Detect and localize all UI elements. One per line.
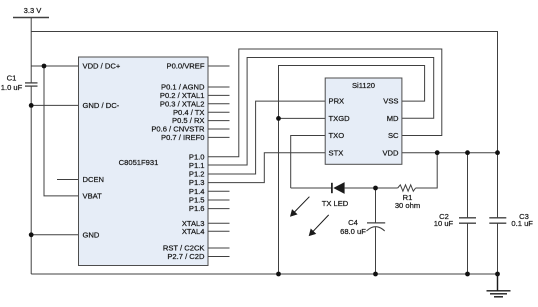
svg-text:VSS: VSS	[383, 97, 398, 106]
junction at GND/DC-	[29, 103, 34, 108]
svg-text:0.1 uF: 0.1 uF	[511, 219, 533, 228]
svg-text:TX LED: TX LED	[322, 199, 349, 208]
pin stub P1.5	[208, 199, 230, 201]
svg-text:TXO: TXO	[329, 131, 345, 140]
capacitor C2 leads	[467, 153, 469, 218]
svg-text:TXGD: TXGD	[329, 114, 351, 123]
power symbol 3.3V bar	[13, 17, 49, 19]
junction rail/ground symbol	[495, 272, 500, 277]
svg-text:P0.0/VREF: P0.0/VREF	[167, 62, 205, 71]
svg-text:VDD / DC+: VDD / DC+	[83, 62, 121, 71]
ground symbol	[487, 274, 511, 297]
svg-text:PRX: PRX	[329, 97, 345, 106]
capacitor C1	[25, 82, 38, 84]
wire: P1.2 to PRX	[208, 101, 325, 174]
wire: bottom ground rail	[31, 273, 497, 275]
capacitor C4	[367, 222, 385, 224]
wire: GND pin	[31, 234, 78, 236]
capacitor C1 top lead	[30, 66, 32, 83]
wire: VDD of Si1120	[402, 152, 498, 154]
wire: VDD/DC+	[31, 65, 78, 67]
svg-text:MD: MD	[387, 114, 399, 123]
resistor R1	[398, 185, 416, 191]
svg-text:C1: C1	[7, 74, 17, 83]
svg-text:1.0 uF: 1.0 uF	[1, 83, 23, 92]
wire: TXGD	[279, 117, 326, 119]
svg-text:30 ohm: 30 ohm	[395, 201, 420, 210]
capacitor C2	[459, 217, 476, 219]
svg-text:P1.4: P1.4	[189, 187, 205, 196]
capacitor C3 leads	[497, 153, 499, 218]
junction at VDD/DC+ branch	[42, 64, 47, 69]
pin stub P0.4	[208, 111, 230, 113]
svg-text:SC: SC	[388, 131, 399, 140]
junction TXGD/ground riser	[276, 116, 281, 121]
wire: 3.3V feed down	[30, 18, 32, 67]
wire: P1.0 to SC	[208, 49, 442, 157]
pin stub XTAL3	[208, 222, 230, 224]
pin stub P0.5	[208, 120, 230, 122]
LED emission arrow 1	[291, 197, 310, 216]
wire: P1.3 to STX	[208, 153, 325, 183]
svg-text:DCEN: DCEN	[83, 175, 105, 184]
svg-text:Si1120: Si1120	[352, 81, 375, 90]
LED emission arrow 2	[309, 215, 328, 236]
wire: GND/DC-	[31, 104, 78, 106]
wire: LED anode to R1	[345, 187, 398, 189]
pin stub P0.2	[208, 94, 230, 96]
pin stub P0.1	[208, 86, 230, 88]
junction VDD rail R1	[435, 150, 440, 155]
svg-text:C8051F931: C8051F931	[119, 158, 159, 167]
wire: LED branch left	[291, 187, 332, 189]
wire: R1 to VDD	[416, 153, 438, 188]
pin stub P2.7/C2D	[208, 256, 230, 258]
pin stub P0.0/VREF	[208, 65, 230, 67]
junction rail/C4	[373, 272, 378, 277]
pin stub P0.7	[208, 136, 230, 138]
junction at GND pin	[29, 232, 34, 237]
IC U2 Si1120	[325, 78, 402, 164]
svg-text:XTAL4: XTAL4	[182, 227, 205, 236]
capacitor C4 leads	[375, 188, 377, 223]
junction LED/R1/C4	[373, 186, 378, 191]
svg-text:P1.1: P1.1	[189, 161, 205, 170]
wire: C1 bottom lead / left ground drop	[30, 86, 32, 274]
svg-text:VDD: VDD	[382, 148, 399, 157]
svg-text:VBAT: VBAT	[83, 192, 103, 201]
junction rail/ground riser	[276, 272, 281, 277]
junction VDD rail C2	[465, 150, 470, 155]
wire: TXO down to LED	[291, 136, 326, 189]
svg-text:P1.6: P1.6	[189, 204, 205, 213]
pin stub XTAL4	[208, 230, 230, 232]
svg-text:STX: STX	[329, 148, 344, 157]
pin stub P1.6	[208, 208, 230, 210]
junction rail/C2	[465, 272, 470, 277]
svg-text:P2.7 / C2D: P2.7 / C2D	[167, 252, 205, 261]
svg-text:10 uF: 10 uF	[434, 219, 454, 228]
svg-text:GND: GND	[83, 230, 100, 239]
pin stub P0.3	[208, 103, 230, 105]
svg-text:GND / DC-: GND / DC-	[83, 101, 120, 110]
svg-text:P0.7 / IREF0: P0.7 / IREF0	[161, 133, 204, 142]
pin stub RST/C2CK	[208, 247, 230, 249]
svg-text:3.3 V: 3.3 V	[24, 6, 43, 15]
wire: VBAT branch	[44, 66, 79, 196]
wire: top rail	[31, 32, 497, 153]
wire: DCEN stub	[57, 179, 79, 181]
capacitor C3	[489, 217, 506, 219]
svg-text:P1.3: P1.3	[189, 178, 205, 187]
pin stub P1.4	[208, 190, 230, 192]
wire: ground riser / VSS hook	[279, 66, 425, 275]
wire: P1.1 to MD	[208, 58, 434, 166]
svg-text:C4: C4	[348, 218, 358, 227]
svg-text:68.0 uF: 68.0 uF	[340, 227, 366, 236]
IC U1 C8051F931	[79, 57, 209, 266]
pin stub P0.6	[208, 128, 230, 130]
diode TX LED	[332, 182, 345, 194]
junction VDD rail C3	[495, 150, 500, 155]
